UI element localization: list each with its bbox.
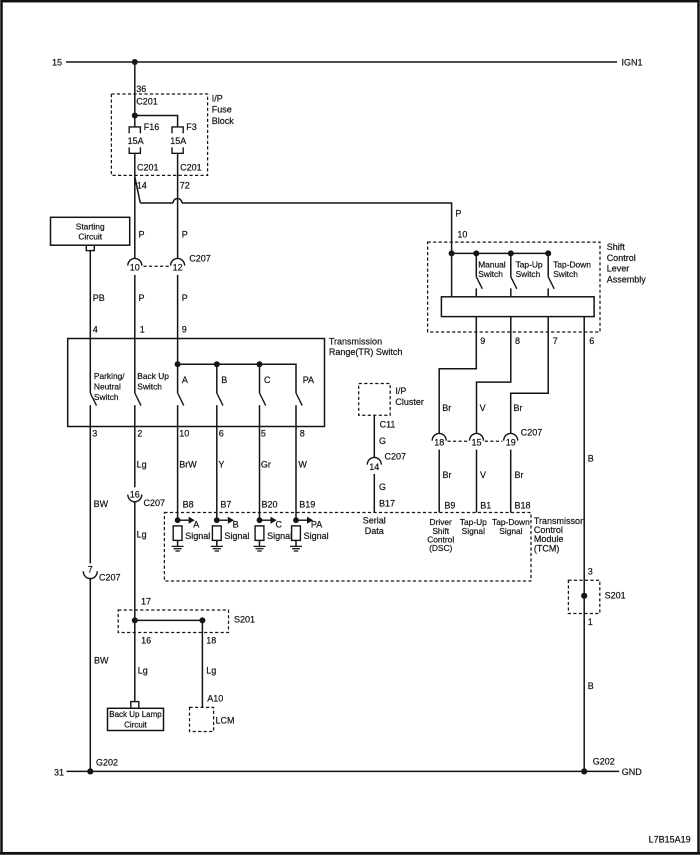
- svg-text:A: A: [193, 520, 199, 530]
- svg-text:PA: PA: [303, 375, 314, 385]
- switch C wire: [259, 364, 261, 393]
- svg-text:1: 1: [140, 325, 145, 335]
- svg-text:Transmission: Transmission: [329, 337, 382, 347]
- svg-text:Assembly: Assembly: [607, 274, 647, 284]
- svg-text:14: 14: [369, 462, 379, 472]
- svg-text:B20: B20: [262, 499, 278, 509]
- wire pin 10 down (BrW): [177, 427, 179, 521]
- TCM input PA junction: [293, 517, 299, 523]
- svg-text:Br: Br: [514, 403, 523, 413]
- svg-text:Back Up Lamp: Back Up Lamp: [109, 710, 162, 719]
- wire cluster to connector 14: [373, 415, 375, 457]
- svg-text:Switch: Switch: [478, 269, 503, 279]
- svg-text:P: P: [182, 230, 188, 240]
- wire junction to F16: [134, 116, 136, 127]
- wire F3 down to connector 12: [177, 153, 179, 259]
- TCM input B junction: [214, 517, 220, 523]
- svg-text:10: 10: [130, 263, 140, 273]
- svg-text:P: P: [139, 230, 145, 240]
- wire pin 9 below bar: [439, 317, 476, 434]
- wire pin 6 down (Y): [216, 427, 218, 521]
- svg-text:G: G: [379, 482, 386, 492]
- svg-text:BW: BW: [94, 655, 109, 665]
- TCM input C arrow: [260, 519, 271, 521]
- switch A blade: [178, 393, 184, 406]
- svg-text:Circuit: Circuit: [124, 721, 147, 730]
- wire S201 to G202: [583, 596, 585, 772]
- junction feed: [449, 250, 455, 256]
- svg-text:V: V: [480, 470, 486, 480]
- svg-text:6: 6: [589, 336, 594, 346]
- switch C stub: [259, 405, 261, 426]
- svg-text:L7B15A19: L7B15A19: [649, 834, 691, 844]
- svg-text:Range(TR) Switch: Range(TR) Switch: [329, 347, 403, 357]
- tap-down switch blade: [548, 277, 554, 289]
- svg-text:I/P: I/P: [212, 94, 223, 104]
- svg-text:Signal: Signal: [304, 531, 329, 541]
- TCM input A resistor: [173, 526, 182, 541]
- switch B stub: [216, 405, 218, 426]
- svg-text:F3: F3: [186, 122, 197, 132]
- dashed link 18-15: [448, 440, 469, 442]
- switch C blade: [260, 393, 266, 406]
- junction B at G202: [581, 768, 587, 774]
- splice junction 18: [199, 617, 205, 623]
- svg-text:Lg: Lg: [137, 460, 147, 470]
- junction node A: [175, 361, 181, 367]
- wire rail to fuse block pin 36: [134, 62, 136, 116]
- svg-text:Circuit: Circuit: [78, 231, 102, 241]
- wire pin 2 down (Lg): [134, 427, 136, 488]
- svg-text:PB: PB: [93, 293, 105, 303]
- splice junction 16: [132, 617, 138, 623]
- back up lamp circuit tab: [131, 702, 139, 709]
- junction manual switch: [473, 250, 479, 256]
- svg-text:Lg: Lg: [138, 665, 148, 675]
- svg-text:Manual: Manual: [478, 259, 506, 269]
- svg-text:B1: B1: [480, 501, 491, 511]
- svg-text:S201: S201: [234, 614, 255, 624]
- parking/neutral switch blade: [90, 393, 96, 406]
- tap-up switch stub: [510, 288, 512, 296]
- svg-text:7: 7: [88, 565, 93, 575]
- wire hop over 72 wire: [173, 199, 182, 204]
- I/P fuse block dashed box: [111, 94, 207, 175]
- svg-text:C: C: [276, 520, 283, 530]
- svg-text:Block: Block: [212, 116, 235, 126]
- back up switch wire: [134, 339, 136, 394]
- svg-text:B: B: [221, 375, 227, 385]
- wire pin 5 down (Gr): [259, 427, 261, 521]
- splice S201 right dashed box: [568, 580, 599, 613]
- svg-text:Switch: Switch: [94, 392, 119, 402]
- wire F16 down to connector 10: [134, 153, 136, 259]
- svg-text:C201: C201: [180, 163, 202, 173]
- svg-text:V: V: [480, 403, 486, 413]
- LCM dashed box: [190, 707, 214, 731]
- svg-text:Tap-Down: Tap-Down: [553, 259, 591, 269]
- svg-text:31: 31: [54, 767, 64, 777]
- svg-text:S201: S201: [605, 591, 626, 601]
- dashed link 15-19: [485, 440, 503, 442]
- svg-text:3: 3: [92, 429, 97, 439]
- junction on IGN1 rail: [132, 59, 138, 65]
- shift assembly bus wire: [452, 252, 549, 254]
- switch PA stub: [295, 405, 297, 426]
- svg-text:8: 8: [300, 429, 305, 439]
- svg-text:B17: B17: [379, 498, 395, 508]
- junction tap-up switch: [508, 250, 514, 256]
- svg-text:C201: C201: [137, 163, 159, 173]
- svg-text:(DSC): (DSC): [429, 543, 452, 553]
- svg-text:Lg: Lg: [137, 530, 147, 540]
- manual switch wire: [475, 253, 477, 276]
- wire pin 8 below bar: [477, 317, 511, 434]
- svg-text:19: 19: [506, 438, 516, 448]
- fuse F3: [172, 127, 183, 153]
- svg-text:Switch: Switch: [553, 269, 578, 279]
- junction BW at G202: [87, 768, 93, 774]
- svg-text:P: P: [455, 209, 461, 219]
- svg-text:G202: G202: [593, 757, 615, 767]
- back up lamp circuit box: [108, 708, 164, 730]
- svg-text:BrW: BrW: [179, 460, 197, 470]
- connector C207 pin 15 arc: [470, 433, 484, 440]
- svg-text:I/P: I/P: [395, 386, 406, 396]
- connector C207 half 10 arc: [128, 258, 142, 265]
- svg-text:1: 1: [588, 617, 593, 627]
- svg-text:C: C: [264, 375, 271, 385]
- wire feed column to connector bar: [451, 253, 453, 296]
- svg-text:17: 17: [141, 596, 151, 606]
- manual switch stub: [475, 288, 477, 296]
- svg-text:Signal: Signal: [224, 531, 249, 541]
- tap-up switch wire: [510, 253, 512, 276]
- svg-text:18: 18: [434, 438, 444, 448]
- svg-text:Data: Data: [365, 526, 384, 536]
- wire rail to shift assembly (left of hop): [140, 202, 173, 204]
- svg-text:C207: C207: [385, 451, 407, 461]
- svg-text:6: 6: [219, 429, 224, 439]
- TCM input PA arrow: [296, 519, 307, 521]
- TCM input A arrow: [178, 519, 189, 521]
- svg-text:B19: B19: [299, 499, 315, 509]
- wire S201 to back up lamp circuit: [134, 620, 136, 701]
- fuse F16: [129, 127, 140, 153]
- svg-text:A10: A10: [207, 694, 223, 704]
- svg-text:P: P: [182, 293, 188, 303]
- wire pin 6 below bar (B): [583, 317, 585, 596]
- wire junction to F3 branch: [135, 116, 178, 127]
- svg-text:C11: C11: [380, 420, 396, 430]
- svg-text:Cluster: Cluster: [395, 397, 424, 407]
- svg-text:15: 15: [471, 438, 481, 448]
- wire pin 7 below bar: [511, 317, 549, 434]
- svg-text:9: 9: [182, 325, 187, 335]
- wire connector 7 down to G202: [89, 579, 91, 772]
- svg-text:B7: B7: [220, 499, 231, 509]
- shift assembly connector bar: [441, 297, 594, 317]
- svg-text:Br: Br: [442, 403, 451, 413]
- wire connector 19 to TCM B18: [510, 450, 512, 513]
- splice S201 left bus: [135, 619, 203, 621]
- svg-text:IGN1: IGN1: [622, 58, 643, 68]
- junction inside fuse block: [132, 113, 138, 119]
- TCM input A junction: [175, 517, 181, 523]
- wire IGN1 horizontal rail: [66, 61, 617, 63]
- svg-text:G202: G202: [96, 758, 118, 768]
- svg-text:F16: F16: [144, 122, 160, 132]
- svg-text:10: 10: [179, 429, 189, 439]
- svg-text:12: 12: [173, 263, 183, 273]
- svg-text:9: 9: [480, 336, 485, 346]
- svg-text:BW: BW: [94, 499, 109, 509]
- svg-text:Control: Control: [607, 253, 636, 263]
- svg-text:2: 2: [137, 429, 142, 439]
- dashed link between connector halves: [144, 265, 170, 267]
- svg-text:14: 14: [137, 181, 147, 191]
- svg-text:15A: 15A: [170, 136, 186, 146]
- wire connector 18 to TCM B9: [438, 450, 440, 513]
- switch PA blade: [296, 393, 302, 406]
- junction tap-down switch: [545, 250, 551, 256]
- svg-text:Signal: Signal: [462, 526, 485, 536]
- svg-text:G: G: [379, 436, 386, 446]
- svg-text:18: 18: [206, 635, 216, 645]
- wire pin 3 down (BW): [89, 427, 91, 564]
- svg-text:C207: C207: [521, 427, 543, 437]
- TCM input C ground: [259, 540, 261, 546]
- connector C207 pin 16 cup arc: [128, 495, 142, 502]
- svg-text:Tap-Up: Tap-Up: [516, 259, 543, 269]
- connector C207 pin 14 arc: [367, 457, 381, 464]
- splice S201 left dashed box: [118, 610, 228, 633]
- connector C207 half 12 arc: [171, 258, 185, 265]
- svg-text:Lg: Lg: [206, 665, 216, 675]
- svg-text:Switch: Switch: [516, 269, 541, 279]
- svg-text:LCM: LCM: [216, 715, 235, 725]
- parking/neutral switch stub: [89, 405, 91, 426]
- svg-text:Signal: Signal: [499, 526, 522, 536]
- svg-text:B8: B8: [183, 499, 194, 509]
- tap-down switch stub: [547, 288, 549, 296]
- wire starting circuit to TR box pin 4: [89, 251, 91, 339]
- connector C207 pin 18 arc: [432, 433, 446, 440]
- svg-text:16: 16: [141, 635, 151, 645]
- svg-text:P: P: [139, 293, 145, 303]
- svg-text:B: B: [588, 681, 594, 691]
- svg-text:Neutral: Neutral: [94, 382, 121, 392]
- TCM dashed box: [164, 513, 531, 582]
- wire diagonal branch to shift assembly rail: [135, 177, 141, 203]
- svg-text:Signal: Signal: [267, 531, 292, 541]
- wire connector 15 to TCM B1: [476, 450, 478, 513]
- parking/neutral switch wire: [89, 339, 91, 394]
- svg-text:16: 16: [130, 489, 140, 499]
- wire connector 14 to TCM: [373, 474, 375, 513]
- svg-text:Y: Y: [218, 460, 224, 470]
- svg-text:B9: B9: [444, 501, 455, 511]
- svg-text:(TCM): (TCM): [534, 543, 560, 553]
- svg-text:Serial: Serial: [363, 516, 386, 526]
- svg-text:C207: C207: [144, 498, 166, 508]
- svg-text:Starting: Starting: [76, 222, 105, 232]
- TCM input A ground: [177, 540, 179, 546]
- svg-text:B: B: [588, 453, 594, 463]
- wire S201 to LCM: [201, 620, 203, 707]
- shift control lever assembly dashed box: [428, 242, 600, 332]
- I/P cluster dashed box: [359, 384, 391, 416]
- switch B wire: [216, 364, 218, 393]
- TCM input C resistor: [255, 526, 264, 541]
- starting circuit box: [51, 217, 130, 245]
- svg-text:W: W: [298, 460, 307, 470]
- TCM input C junction: [257, 517, 263, 523]
- svg-text:8: 8: [515, 336, 520, 346]
- svg-text:7: 7: [553, 336, 558, 346]
- svg-text:Signal: Signal: [185, 531, 210, 541]
- wire rail to shift assembly (right of hop): [182, 203, 452, 253]
- wire connector 16 down to S201: [134, 502, 136, 621]
- svg-text:Back Up: Back Up: [137, 371, 169, 381]
- back up switch stub: [134, 405, 136, 426]
- svg-text:Shift: Shift: [607, 242, 626, 252]
- TCM input PA ground: [295, 540, 297, 546]
- svg-text:PA: PA: [311, 520, 322, 530]
- svg-text:Br: Br: [515, 470, 524, 480]
- wire pin 8 down (W): [295, 427, 297, 521]
- junction node C: [257, 361, 263, 367]
- svg-text:Switch: Switch: [137, 382, 162, 392]
- svg-text:Br: Br: [443, 470, 452, 480]
- TCM input B resistor: [212, 526, 221, 541]
- svg-text:GND: GND: [622, 767, 643, 777]
- manual switch blade: [476, 277, 482, 289]
- svg-text:3: 3: [588, 567, 593, 577]
- TCM input B ground: [216, 540, 218, 546]
- svg-text:4: 4: [93, 325, 98, 335]
- wire connector 12 down to TR box pin 9 and bus: [177, 275, 179, 364]
- junction node B: [214, 361, 220, 367]
- Transmission Range switch box: [68, 339, 325, 427]
- svg-text:15: 15: [52, 58, 62, 68]
- TCM input PA resistor: [292, 526, 301, 541]
- svg-text:B18: B18: [515, 501, 531, 511]
- wire connector 10 down to TR box pin 1: [134, 275, 136, 339]
- svg-text:B: B: [233, 520, 239, 530]
- tap-down switch wire: [547, 253, 549, 276]
- svg-text:Fuse: Fuse: [212, 105, 232, 115]
- bottom border reinforcement: [0, 852, 700, 855]
- back up switch blade: [135, 393, 141, 406]
- svg-text:Lever: Lever: [607, 264, 630, 274]
- svg-text:Gr: Gr: [261, 460, 271, 470]
- svg-text:C201: C201: [136, 96, 158, 106]
- starting circuit tab: [86, 245, 94, 250]
- svg-text:Parking/: Parking/: [94, 371, 125, 381]
- TR bus wire: [178, 364, 296, 393]
- svg-text:36: 36: [136, 84, 146, 94]
- tap-up switch blade: [511, 277, 517, 289]
- wire G202 ground rail: [67, 770, 620, 772]
- svg-text:72: 72: [180, 181, 190, 191]
- splice S201 junction: [581, 593, 587, 599]
- svg-text:C207: C207: [99, 573, 121, 583]
- switch B blade: [217, 393, 223, 406]
- svg-text:A: A: [182, 375, 188, 385]
- svg-text:10: 10: [457, 230, 467, 240]
- svg-text:15A: 15A: [128, 136, 144, 146]
- svg-text:C207: C207: [189, 254, 211, 264]
- TCM input B arrow: [217, 519, 228, 521]
- switch A wire: [177, 364, 179, 393]
- switch A stub: [177, 405, 179, 426]
- connector C207 pin 19 arc: [504, 433, 518, 440]
- connector C207 pin 7 cup arc: [83, 571, 97, 578]
- svg-text:5: 5: [261, 429, 266, 439]
